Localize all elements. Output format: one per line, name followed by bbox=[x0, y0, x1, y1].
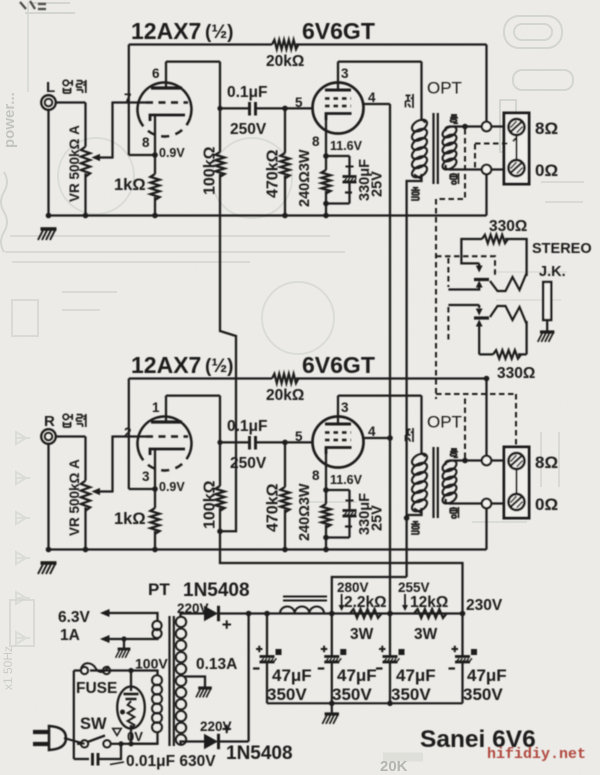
HV secondary winding bbox=[176, 617, 186, 627]
ground bbox=[38, 229, 57, 240]
svg-text:100V: 100V bbox=[135, 656, 168, 672]
svg-text:20kΩ: 20kΩ bbox=[266, 53, 304, 70]
dashed from R 8ohm node bbox=[462, 458, 468, 464]
dropper 12k 3W bbox=[414, 609, 447, 618]
svg-text:SW: SW bbox=[80, 715, 107, 733]
svg-text:25V: 25V bbox=[370, 171, 386, 197]
svg-text:7: 7 bbox=[124, 91, 132, 106]
wire jack shield down to ground rail bbox=[47, 110, 49, 216]
plate wire to node bbox=[166, 60, 220, 62]
svg-text:470kΩ: 470kΩ bbox=[265, 149, 282, 198]
svg-text:3W: 3W bbox=[414, 626, 438, 643]
top jack tip spring bbox=[490, 273, 527, 291]
svg-text:255V: 255V bbox=[398, 580, 430, 595]
svg-text:47μF: 47μF bbox=[272, 666, 312, 685]
svg-text:5: 5 bbox=[295, 95, 303, 110]
ground rail bbox=[49, 214, 487, 216]
svg-text:12kΩ: 12kΩ bbox=[410, 594, 448, 611]
secondary leads + 8ohm / 0ohm nodes bbox=[449, 125, 482, 127]
svg-text:47μF: 47μF bbox=[467, 666, 507, 685]
neon pilot lamp bbox=[117, 687, 145, 729]
svg-text:hifidiy.net: hifidiy.net bbox=[487, 746, 586, 763]
svg-text:2.2kΩ: 2.2kΩ bbox=[344, 594, 387, 611]
svg-text:350V: 350V bbox=[391, 685, 431, 704]
NFB into cathode node bbox=[128, 45, 130, 156]
cathode pin8 bbox=[325, 116, 327, 156]
svg-text:280V: 280V bbox=[337, 580, 369, 595]
OPT primary B+ feed bus (280V) bbox=[407, 174, 422, 577]
dashed line from L 8ohm node bbox=[462, 124, 468, 130]
svg-text:1N5408: 1N5408 bbox=[183, 580, 250, 601]
svg-text:0.13A: 0.13A bbox=[196, 656, 237, 673]
svg-text:J.K.: J.K. bbox=[539, 264, 566, 280]
coupling cap 0.1uF 250V bbox=[220, 107, 249, 109]
cap 47uF at x=267 bbox=[266, 614, 268, 657]
rectifier diode D1 top bbox=[181, 614, 205, 617]
svg-text:6V6GT: 6V6GT bbox=[302, 18, 375, 44]
cap 47uF at x=462.5 bbox=[461, 614, 463, 657]
line cap 0.01uF 630V bbox=[74, 758, 89, 760]
cap 47uF at x=390 bbox=[389, 614, 391, 657]
wire wiper to grid bbox=[111, 102, 113, 159]
svg-text:330Ω: 330Ω bbox=[489, 218, 527, 235]
cap ground rail bbox=[267, 702, 463, 704]
cap 47uF at x=331.8 bbox=[331, 614, 333, 657]
centre tap to ground bbox=[184, 677, 205, 688]
svg-text:47μF: 47μF bbox=[396, 666, 436, 685]
svg-text:250V: 250V bbox=[230, 121, 267, 138]
preamp B+ line from 100k loads down to 230V node bbox=[220, 196, 236, 531]
svg-text:8: 8 bbox=[142, 135, 150, 150]
svg-text:x1 50Hz: x1 50Hz bbox=[1, 646, 15, 690]
dropper 2.2k 3W bbox=[350, 609, 382, 618]
cathode resistor 240ohm 3W bbox=[325, 156, 327, 170]
svg-text:L: L bbox=[46, 79, 55, 96]
svg-text:8Ω: 8Ω bbox=[535, 119, 558, 138]
svg-text:(½): (½) bbox=[205, 22, 234, 43]
dashed to top jack contact bbox=[436, 256, 495, 275]
svg-text:47μF: 47μF bbox=[337, 666, 377, 685]
svg-text:FUSE: FUSE bbox=[76, 680, 117, 697]
svg-text:power...: power... bbox=[1, 92, 18, 148]
jack sleeve to ground bbox=[543, 282, 551, 320]
cathode lead bbox=[154, 116, 156, 155]
svg-text:20K: 20K bbox=[380, 758, 408, 775]
12AX7 triode V1 envelope (half dashed) bbox=[137, 82, 191, 119]
choke L1 bbox=[280, 606, 324, 613]
grid dashes bbox=[146, 101, 188, 104]
svg-text:0.9V: 0.9V bbox=[159, 146, 185, 160]
svg-text:100kΩ: 100kΩ bbox=[202, 146, 219, 195]
wire colour marks bbox=[406, 94, 411, 96]
rectifier diode D2 bottom bbox=[181, 742, 205, 746]
svg-text:2: 2 bbox=[124, 425, 132, 440]
primary winding 100V bbox=[152, 675, 162, 685]
280V feed down to filter bbox=[332, 577, 407, 614]
pot wiper arrow bbox=[98, 156, 114, 158]
input jack J1 bbox=[41, 95, 56, 110]
svg-text:R: R bbox=[44, 413, 55, 430]
svg-text:8: 8 bbox=[312, 134, 320, 149]
svg-text:VR 500kΩ A: VR 500kΩ A bbox=[67, 125, 82, 202]
bottom jack tip spring bbox=[490, 306, 527, 324]
svg-text:350V: 350V bbox=[332, 685, 372, 704]
left rail of primary loop bbox=[73, 671, 75, 760]
svg-text:3W: 3W bbox=[350, 626, 374, 643]
bottom jack contacts bbox=[448, 304, 479, 306]
plate lead up bbox=[165, 62, 167, 88]
svg-text:1N5408: 1N5408 bbox=[226, 743, 293, 764]
grid leak 470k bbox=[284, 108, 286, 153]
svg-text:6: 6 bbox=[152, 66, 160, 81]
fuse bbox=[90, 669, 131, 671]
AC plug bbox=[33, 730, 49, 734]
svg-text:0.1μF: 0.1μF bbox=[227, 84, 268, 101]
NFB 20k resistor bbox=[129, 43, 272, 45]
svg-text:1A: 1A bbox=[60, 627, 80, 644]
svg-text:6.3V: 6.3V bbox=[58, 609, 91, 626]
svg-text:350V: 350V bbox=[463, 685, 503, 704]
R OPT primary bottom jog joins bus bbox=[407, 508, 422, 515]
cathode bar bbox=[150, 115, 185, 121]
svg-text:12AX7: 12AX7 bbox=[131, 18, 201, 44]
svg-text:0.01μF 630V: 0.01μF 630V bbox=[126, 753, 216, 770]
svg-text:4: 4 bbox=[368, 90, 376, 105]
svg-text:1: 1 bbox=[152, 400, 160, 415]
svg-text:11.6V: 11.6V bbox=[330, 139, 363, 153]
bypass cap 330uF 25V bbox=[326, 155, 350, 157]
potentiometer VR 500k A bbox=[84, 103, 86, 147]
plate load 100k bbox=[215, 152, 224, 177]
speaker terminal block bbox=[504, 113, 529, 184]
filament winding 6.3V bbox=[152, 621, 161, 630]
scan corner marks bbox=[20, 1, 46, 9]
plate wire to OPT bbox=[338, 60, 422, 62]
screen pin4 to bus bbox=[363, 103, 390, 105]
plate bar bbox=[151, 86, 182, 89]
330 ohm resistor (bottom, R) bbox=[479, 353, 493, 355]
svg-text:1kΩ: 1kΩ bbox=[114, 176, 146, 194]
svg-text:OPT: OPT bbox=[427, 79, 462, 98]
screen grid bus (255V) pins 4 down to PSU bbox=[389, 104, 391, 614]
cathode resistor 1k bbox=[150, 174, 159, 200]
svg-text:230V: 230V bbox=[466, 597, 503, 614]
dashed near L 0ohm bbox=[511, 138, 516, 144]
6V6GT pentode V2 bbox=[313, 83, 364, 134]
svg-text:240Ω3W: 240Ω3W bbox=[297, 149, 313, 207]
top jack contacts bbox=[478, 263, 480, 266]
R NFB tap to R 8ohm bbox=[484, 376, 490, 382]
svg-text:0Ω: 0Ω bbox=[535, 161, 558, 180]
svg-text:PT: PT bbox=[148, 580, 170, 599]
svg-text:STEREO: STEREO bbox=[532, 241, 592, 257]
wire jack to pot bbox=[56, 101, 86, 103]
power transformer PT core bbox=[168, 616, 170, 746]
svg-text:3: 3 bbox=[341, 66, 349, 81]
svg-text:3: 3 bbox=[142, 469, 150, 484]
svg-text:350V: 350V bbox=[267, 685, 307, 704]
svg-text:330Ω: 330Ω bbox=[497, 365, 535, 382]
B+ rail bbox=[249, 612, 463, 614]
plate pin3 bbox=[337, 62, 339, 90]
